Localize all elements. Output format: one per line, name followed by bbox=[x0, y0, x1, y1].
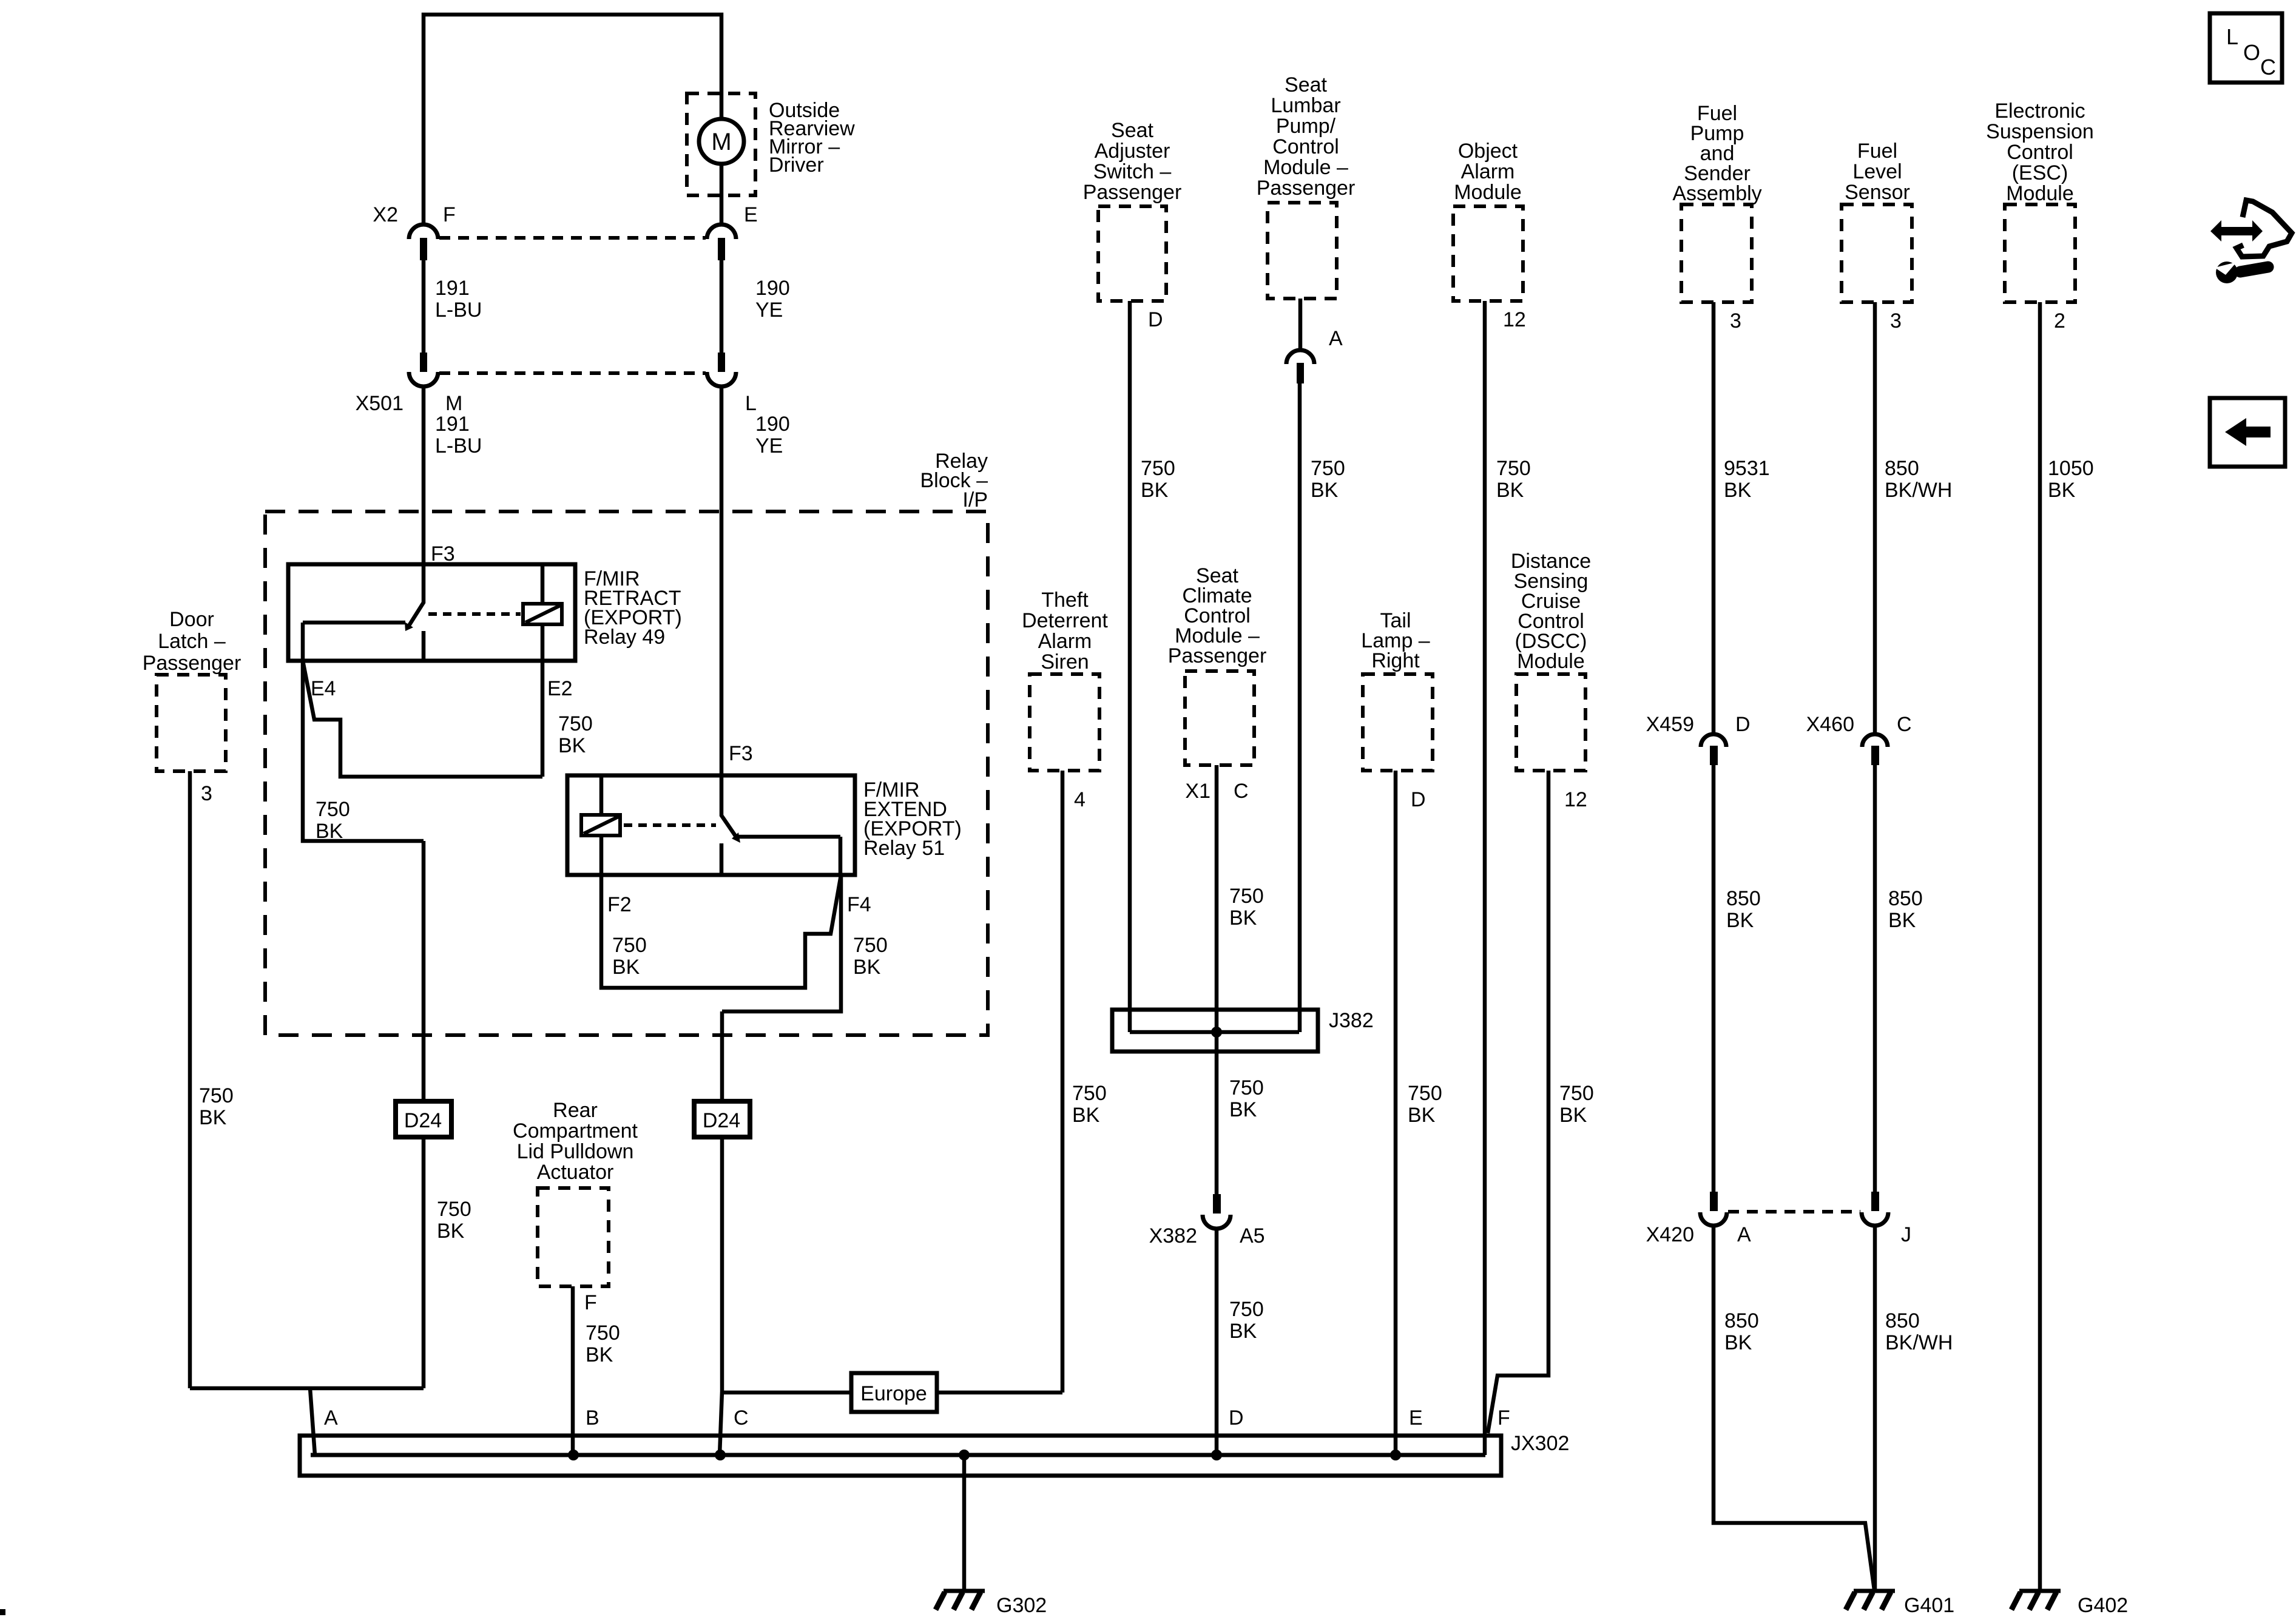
Europe option box bbox=[851, 1373, 937, 1412]
svg-text:190: 190 bbox=[755, 413, 790, 436]
harness bus JX302 outer bbox=[300, 1436, 1501, 1476]
svg-text:G302: G302 bbox=[996, 1594, 1047, 1617]
svg-text:X1: X1 bbox=[1185, 780, 1210, 803]
svg-text:L-BU: L-BU bbox=[435, 299, 482, 322]
svg-text:Module: Module bbox=[1517, 650, 1585, 673]
svg-text:BK: BK bbox=[586, 1343, 613, 1366]
connector X382 pin A5 bbox=[1213, 1194, 1221, 1214]
wire tail lamp pin D 750 BK to bus E bbox=[1394, 771, 1398, 1455]
svg-text:Adjuster: Adjuster bbox=[1095, 140, 1170, 163]
svg-text:A5: A5 bbox=[1240, 1224, 1265, 1247]
wire E4 750 BK down to D24 bbox=[303, 661, 424, 1103]
svg-text:Passenger: Passenger bbox=[1168, 644, 1267, 667]
svg-text:Right: Right bbox=[1371, 649, 1420, 672]
svg-text:D: D bbox=[1735, 713, 1751, 736]
svg-text:750: 750 bbox=[612, 934, 647, 957]
svg-text:191: 191 bbox=[435, 413, 470, 436]
svg-text:F3: F3 bbox=[729, 742, 753, 765]
svg-text:X501: X501 bbox=[356, 392, 403, 415]
wire DSCC pin 12 750 BK joining bus F bbox=[1488, 771, 1548, 1433]
svg-text:Module –: Module – bbox=[1263, 156, 1348, 179]
splice D24 left bbox=[396, 1101, 451, 1137]
svg-text:O: O bbox=[2243, 40, 2260, 65]
svg-text:750: 750 bbox=[1229, 1298, 1264, 1321]
svg-text:BK: BK bbox=[1229, 1098, 1257, 1121]
svg-text:BK: BK bbox=[2048, 479, 2076, 502]
svg-text:Alarm: Alarm bbox=[1038, 630, 1092, 653]
svg-text:3: 3 bbox=[201, 782, 212, 805]
splice D24 right bbox=[694, 1101, 750, 1137]
junction node E bbox=[1390, 1450, 1401, 1460]
connector A lumbar bbox=[1286, 350, 1314, 364]
svg-text:Siren: Siren bbox=[1041, 650, 1089, 673]
svg-text:Theft: Theft bbox=[1041, 589, 1089, 612]
svg-text:C: C bbox=[1234, 780, 1249, 803]
relay block I/P dashed enclosure bbox=[265, 511, 988, 1035]
wire G302 drop bbox=[962, 1455, 967, 1590]
svg-text:J: J bbox=[1901, 1223, 1911, 1246]
dashed link X420 A to J bbox=[1728, 1210, 1860, 1214]
fuel pump and sender assembly dashed box bbox=[1681, 204, 1752, 302]
svg-text:B: B bbox=[586, 1406, 599, 1430]
back arrow box bbox=[2210, 398, 2285, 467]
svg-text:L: L bbox=[2226, 24, 2238, 49]
connector X460 pin C bbox=[1862, 734, 1888, 747]
junction node G302 tap bbox=[959, 1450, 970, 1460]
svg-text:BK: BK bbox=[1559, 1104, 1587, 1127]
svg-text:Door: Door bbox=[169, 608, 214, 631]
svg-text:750: 750 bbox=[199, 1084, 234, 1107]
svg-text:750: 750 bbox=[1408, 1082, 1442, 1105]
svg-text:BK: BK bbox=[1311, 479, 1339, 502]
wire 850 BK/WH fuel level pin 3 bbox=[1873, 302, 1877, 734]
ground G402 bbox=[2019, 1589, 2061, 1593]
wire E2 750 BK bbox=[541, 661, 545, 777]
svg-text:F: F bbox=[1497, 1406, 1510, 1430]
svg-text:Suspension: Suspension bbox=[1986, 120, 2094, 143]
svg-text:191: 191 bbox=[435, 277, 470, 300]
svg-text:12: 12 bbox=[1503, 308, 1526, 331]
svg-text:BK: BK bbox=[1229, 1320, 1257, 1343]
svg-text:Latch –: Latch – bbox=[158, 630, 226, 653]
svg-text:750: 750 bbox=[1311, 457, 1345, 480]
relay 49 coil bbox=[523, 604, 562, 624]
svg-text:D24: D24 bbox=[404, 1109, 442, 1132]
J382 internal bus bbox=[1130, 1030, 1299, 1035]
fuel level sensor dashed box bbox=[1842, 204, 1912, 302]
seat climate control module passenger dashed box bbox=[1185, 671, 1254, 765]
svg-text:E: E bbox=[1409, 1406, 1423, 1430]
wire lumbar to connector A bbox=[1298, 299, 1303, 350]
svg-text:YE: YE bbox=[755, 434, 783, 457]
connector X2 pin F bbox=[409, 224, 438, 239]
svg-text:Lid Pulldown: Lid Pulldown bbox=[517, 1140, 634, 1163]
junction node C bbox=[715, 1450, 726, 1460]
svg-text:750: 750 bbox=[1496, 457, 1531, 480]
svg-text:F3: F3 bbox=[431, 542, 455, 565]
wire climate pin X1 C 750 BK bbox=[1215, 765, 1219, 1194]
svg-text:F: F bbox=[584, 1291, 597, 1314]
svg-text:Relay 49: Relay 49 bbox=[584, 626, 665, 649]
svg-text:750: 750 bbox=[586, 1322, 620, 1345]
svg-text:BK: BK bbox=[1724, 1331, 1752, 1354]
svg-text:850: 850 bbox=[1885, 1309, 1920, 1332]
connector X420 pin A bbox=[1710, 1192, 1718, 1211]
svg-text:Passenger: Passenger bbox=[143, 652, 241, 675]
svg-text:BK: BK bbox=[437, 1220, 465, 1243]
svg-text:YE: YE bbox=[755, 299, 783, 322]
svg-text:JX302: JX302 bbox=[1511, 1432, 1569, 1455]
svg-text:850: 850 bbox=[1726, 887, 1761, 910]
svg-text:3: 3 bbox=[1890, 309, 1902, 333]
svg-text:Fuel: Fuel bbox=[1857, 140, 1897, 163]
svg-text:Module: Module bbox=[1454, 181, 1522, 204]
svg-text:E4: E4 bbox=[311, 677, 336, 700]
svg-text:BK: BK bbox=[612, 956, 640, 979]
junction node D bbox=[1211, 1450, 1222, 1460]
svg-text:X382: X382 bbox=[1149, 1224, 1197, 1247]
svg-text:Lumbar: Lumbar bbox=[1271, 94, 1340, 117]
svg-text:F4: F4 bbox=[847, 893, 871, 916]
wire 850 BK X420 A to G401 bbox=[1714, 1226, 1874, 1590]
relay 49 switch arm bbox=[409, 564, 424, 626]
wire door latch pin 3 750 BK bbox=[188, 771, 192, 1388]
wire 1050 BK ESC pin 2 to G402 bbox=[2038, 302, 2042, 1590]
svg-text:850: 850 bbox=[1724, 1309, 1759, 1332]
wire: feed loop from mirror motor to X2 connectors bbox=[424, 15, 721, 224]
svg-text:BK: BK bbox=[558, 734, 586, 757]
wire 191 L-BU upper bbox=[422, 260, 426, 354]
svg-text:E2: E2 bbox=[547, 677, 573, 700]
svg-text:Driver: Driver bbox=[769, 154, 824, 177]
wire 750 BK below right D24 to Europe junction and bus C bbox=[720, 1136, 722, 1455]
svg-text:850: 850 bbox=[1888, 887, 1923, 910]
svg-text:C: C bbox=[1897, 713, 1912, 736]
svg-text:Passenger: Passenger bbox=[1083, 181, 1182, 204]
svg-text:Control: Control bbox=[1272, 135, 1339, 158]
dashed box: outside rearview mirror driver bbox=[687, 93, 755, 195]
LOC legend box bbox=[2210, 13, 2282, 83]
wire 850 BK X460 to X420 bbox=[1873, 765, 1877, 1193]
object alarm module dashed box bbox=[1453, 206, 1523, 301]
relay 51 switch arm bbox=[721, 775, 736, 837]
wire 190 YE lower bbox=[720, 387, 724, 775]
svg-text:750: 750 bbox=[1229, 1076, 1264, 1099]
svg-text:F: F bbox=[443, 203, 456, 226]
svg-text:BK: BK bbox=[1229, 906, 1257, 930]
svg-text:BK: BK bbox=[853, 956, 881, 979]
svg-text:BK: BK bbox=[1072, 1104, 1100, 1127]
svg-text:I/P: I/P bbox=[962, 488, 988, 511]
svg-text:X459: X459 bbox=[1646, 713, 1694, 736]
dashed link X2 F to E bbox=[439, 236, 706, 240]
svg-text:Electronic: Electronic bbox=[1994, 100, 2085, 123]
connector X420 pin J bbox=[1871, 1192, 1879, 1211]
wire object alarm pin 12 750 BK to bus F bbox=[1483, 301, 1487, 1455]
wire 9531 BK fuel pump pin 3 bbox=[1712, 302, 1716, 734]
svg-text:G402: G402 bbox=[2078, 1594, 2128, 1617]
connector X501 pin M bbox=[420, 353, 427, 372]
dashed link X501 M to L bbox=[439, 371, 706, 375]
svg-text:D: D bbox=[1148, 308, 1163, 331]
svg-text:L-BU: L-BU bbox=[435, 434, 482, 457]
svg-text:Module: Module bbox=[2006, 182, 2074, 205]
svg-text:X460: X460 bbox=[1806, 713, 1854, 736]
svg-text:M: M bbox=[445, 392, 462, 415]
service tool icon bbox=[2210, 220, 2263, 241]
svg-text:Level: Level bbox=[1852, 160, 1902, 183]
svg-text:750: 750 bbox=[853, 934, 888, 957]
wire 750 BK X382 to bus D bbox=[1215, 1229, 1219, 1455]
connector X2 pin E bbox=[707, 224, 736, 239]
svg-text:Relay 51: Relay 51 bbox=[863, 837, 945, 860]
svg-text:X2: X2 bbox=[373, 203, 398, 226]
svg-text:BK: BK bbox=[1496, 479, 1524, 502]
svg-text:BK/WH: BK/WH bbox=[1885, 1331, 1953, 1354]
svg-text:G401: G401 bbox=[1904, 1594, 1954, 1617]
ground G401 bbox=[1854, 1589, 1895, 1593]
svg-text:BK: BK bbox=[1888, 909, 1916, 932]
svg-text:Passenger: Passenger bbox=[1257, 177, 1356, 200]
door latch passenger dashed box bbox=[157, 675, 226, 771]
wire 190 YE upper bbox=[720, 260, 724, 354]
distance sensing cruise control module dashed box bbox=[1516, 674, 1585, 771]
svg-text:C: C bbox=[2260, 55, 2276, 79]
wire Europe link right to siren bbox=[937, 1391, 1062, 1395]
svg-text:E: E bbox=[744, 203, 758, 226]
connector X459 pin D bbox=[1701, 734, 1726, 747]
svg-text:3: 3 bbox=[1730, 309, 1741, 333]
svg-text:750: 750 bbox=[1141, 457, 1175, 480]
svg-text:Control: Control bbox=[2007, 141, 2073, 164]
svg-text:A: A bbox=[1737, 1223, 1751, 1246]
svg-text:Sensor: Sensor bbox=[1845, 181, 1910, 204]
relay 49 F/MIR RETRACT (EXPORT) bbox=[288, 564, 575, 661]
svg-text:750: 750 bbox=[1072, 1082, 1107, 1105]
bus JX302 inner conductor bbox=[311, 1453, 1485, 1457]
svg-text:Alarm: Alarm bbox=[1461, 160, 1515, 183]
svg-text:Assembly: Assembly bbox=[1672, 182, 1761, 205]
svg-text:A: A bbox=[324, 1406, 338, 1430]
svg-text:J382: J382 bbox=[1329, 1009, 1374, 1032]
svg-text:BK: BK bbox=[1724, 479, 1752, 502]
wire F4 750 BK down to D24 bbox=[722, 875, 841, 1103]
wire 750 BK below left D24 bbox=[422, 1136, 426, 1388]
wire 850 BK/WH X420 J to G401 bbox=[1873, 1226, 1877, 1590]
svg-text:BK: BK bbox=[199, 1106, 227, 1129]
svg-text:(ESC): (ESC) bbox=[2012, 161, 2068, 184]
ground G302 bbox=[944, 1589, 985, 1593]
svg-text:Seat: Seat bbox=[1111, 119, 1153, 142]
svg-text:4: 4 bbox=[1074, 788, 1086, 811]
svg-text:F2: F2 bbox=[607, 893, 632, 916]
wire join to bus point A bbox=[190, 1388, 424, 1455]
svg-text:850: 850 bbox=[1885, 457, 1919, 480]
svg-text:D: D bbox=[1229, 1406, 1244, 1430]
seat adjuster switch passenger dashed box bbox=[1098, 206, 1166, 301]
svg-text:D24: D24 bbox=[703, 1109, 740, 1132]
svg-text:X420: X420 bbox=[1646, 1223, 1694, 1246]
svg-text:Rear: Rear bbox=[553, 1099, 598, 1122]
svg-text:Switch –: Switch – bbox=[1093, 160, 1172, 183]
relay 49 fixed contact bbox=[303, 623, 424, 661]
wire actuator pin F 750 BK to bus B bbox=[571, 1286, 575, 1455]
junction node B bbox=[568, 1450, 579, 1460]
splice pack J382 bbox=[1112, 1010, 1318, 1052]
svg-text:Compartment: Compartment bbox=[513, 1119, 638, 1143]
svg-text:Seat: Seat bbox=[1285, 73, 1327, 96]
wire 850 BK X459 to X420 bbox=[1712, 765, 1716, 1193]
relay 51 coil bbox=[581, 815, 620, 836]
svg-text:BK: BK bbox=[1726, 909, 1754, 932]
svg-text:BK: BK bbox=[1408, 1104, 1436, 1127]
electronic suspension control module dashed box bbox=[2005, 204, 2075, 302]
relay 51 contacts bbox=[721, 837, 840, 875]
svg-text:Pump/: Pump/ bbox=[1276, 115, 1336, 138]
svg-text:L: L bbox=[745, 392, 757, 415]
page corner mark bbox=[0, 1609, 5, 1615]
svg-text:BK: BK bbox=[316, 820, 343, 843]
svg-text:Deterrent: Deterrent bbox=[1022, 609, 1108, 632]
svg-text:Europe: Europe bbox=[860, 1382, 927, 1405]
svg-text:750: 750 bbox=[558, 712, 593, 735]
rear compartment lid pulldown actuator dashed box bbox=[538, 1188, 609, 1286]
wire 750 BK lumbar to J382 bbox=[1298, 383, 1302, 1032]
relay 51 F/MIR EXTEND (EXPORT) bbox=[567, 775, 855, 875]
wire Europe link left bbox=[722, 1391, 851, 1395]
svg-text:Object: Object bbox=[1458, 140, 1518, 163]
seat lumbar pump/control module passenger dashed box bbox=[1268, 203, 1337, 299]
svg-text:750: 750 bbox=[437, 1198, 471, 1221]
svg-text:750: 750 bbox=[1229, 885, 1264, 908]
svg-text:2: 2 bbox=[2054, 309, 2065, 333]
connector X501 pin L bbox=[718, 353, 725, 372]
svg-text:BK/WH: BK/WH bbox=[1885, 479, 1952, 502]
svg-text:C: C bbox=[734, 1406, 749, 1430]
wire siren pin 4 750 BK bbox=[1061, 771, 1065, 1393]
svg-text:D: D bbox=[1411, 788, 1426, 811]
svg-text:Actuator: Actuator bbox=[537, 1161, 614, 1184]
wire seat adjuster pin D 750 BK to J382 bbox=[1128, 301, 1132, 1032]
svg-text:750: 750 bbox=[316, 798, 350, 821]
svg-text:1050: 1050 bbox=[2048, 457, 2094, 480]
svg-text:750: 750 bbox=[1559, 1082, 1594, 1105]
wire E4 relay49 to E2 join bbox=[303, 661, 542, 777]
wire 191 L-BU lower bbox=[422, 387, 426, 564]
svg-text:9531: 9531 bbox=[1724, 457, 1770, 480]
svg-text:M: M bbox=[711, 129, 731, 155]
motor M1 outside rearview mirror driver bbox=[699, 119, 744, 164]
wire F2 750 BK join to F4 bbox=[601, 875, 841, 988]
svg-text:190: 190 bbox=[755, 277, 790, 300]
svg-text:12: 12 bbox=[1564, 788, 1587, 811]
svg-text:A: A bbox=[1329, 327, 1343, 350]
tail lamp right dashed box bbox=[1363, 674, 1433, 771]
svg-text:BK: BK bbox=[1141, 479, 1169, 502]
theft deterrent alarm siren dashed box bbox=[1030, 674, 1099, 771]
